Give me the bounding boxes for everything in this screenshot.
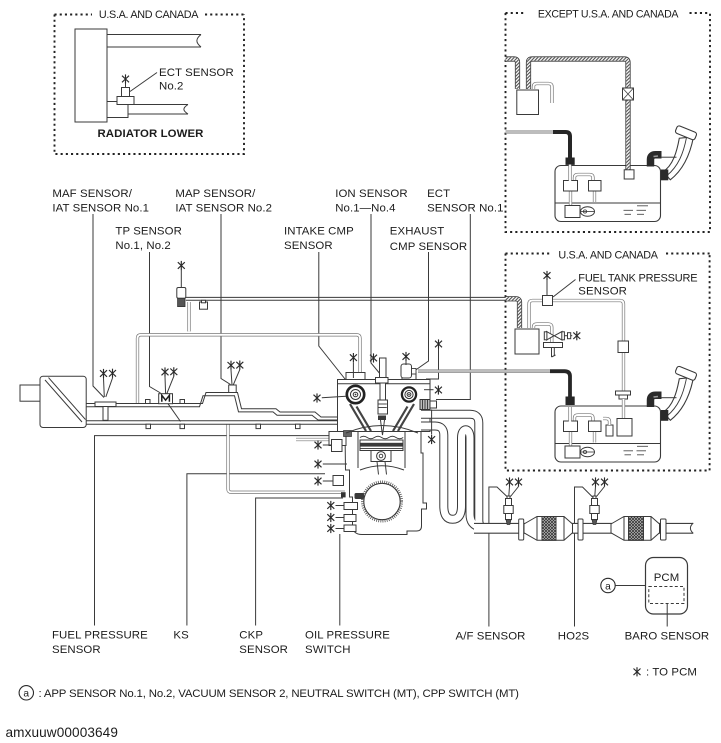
svg-text:ECT SENSOR: ECT SENSOR — [159, 67, 234, 79]
svg-text:RADIATOR LOWER: RADIATOR LOWER — [97, 128, 203, 140]
svg-text:No.1—No.4: No.1—No.4 — [335, 203, 395, 215]
svg-text:ION SENSOR: ION SENSOR — [335, 188, 408, 200]
svg-text:FUEL PRESSURE: FUEL PRESSURE — [52, 630, 148, 642]
svg-text:No.2: No.2 — [159, 81, 183, 93]
svg-text:SENSOR: SENSOR — [284, 240, 333, 252]
svg-text:amxuuw00003649: amxuuw00003649 — [6, 725, 119, 740]
svg-text:SENSOR: SENSOR — [52, 644, 101, 656]
svg-text:A/F SENSOR: A/F SENSOR — [456, 631, 526, 643]
svg-text:a: a — [23, 689, 29, 700]
svg-text:FUEL TANK PRESSURE: FUEL TANK PRESSURE — [578, 273, 697, 285]
svg-text:EXHAUST: EXHAUST — [390, 225, 445, 237]
svg-text:HO2S: HO2S — [558, 631, 590, 643]
svg-text:CMP SENSOR: CMP SENSOR — [390, 241, 467, 253]
svg-text:a: a — [605, 581, 611, 592]
svg-text:: APP SENSOR No.1, No.2, VACUU: : APP SENSOR No.1, No.2, VACUUM SENSOR 2… — [39, 688, 520, 700]
svg-text:PCM: PCM — [654, 572, 680, 584]
svg-text:No.1, No.2: No.1, No.2 — [115, 240, 170, 252]
svg-text:CKP: CKP — [239, 630, 263, 642]
svg-text:U.S.A. AND CANADA: U.S.A. AND CANADA — [99, 9, 199, 21]
svg-text:OIL PRESSURE: OIL PRESSURE — [305, 630, 390, 642]
svg-text:IAT SENSOR No.2: IAT SENSOR No.2 — [175, 203, 272, 215]
svg-text:IAT SENSOR No.1: IAT SENSOR No.1 — [52, 203, 149, 215]
svg-text:TP SENSOR: TP SENSOR — [115, 225, 182, 237]
svg-text:MAF SENSOR/: MAF SENSOR/ — [52, 188, 132, 200]
svg-text:BARO SENSOR: BARO SENSOR — [625, 631, 710, 643]
svg-text:: TO PCM: : TO PCM — [646, 667, 697, 679]
svg-text:SENSOR: SENSOR — [578, 285, 627, 297]
svg-text:INTAKE CMP: INTAKE CMP — [284, 225, 354, 237]
svg-text:ECT: ECT — [427, 188, 450, 200]
svg-text:EXCEPT U.S.A. AND CANADA: EXCEPT U.S.A. AND CANADA — [538, 8, 680, 20]
svg-text:KS: KS — [173, 630, 189, 642]
svg-text:SWITCH: SWITCH — [305, 644, 351, 656]
svg-text:MAP SENSOR/: MAP SENSOR/ — [175, 188, 256, 200]
svg-text:U.S.A. AND CANADA: U.S.A. AND CANADA — [558, 249, 658, 261]
svg-text:SENSOR: SENSOR — [239, 644, 288, 656]
svg-text:SENSOR No.1: SENSOR No.1 — [427, 203, 503, 215]
